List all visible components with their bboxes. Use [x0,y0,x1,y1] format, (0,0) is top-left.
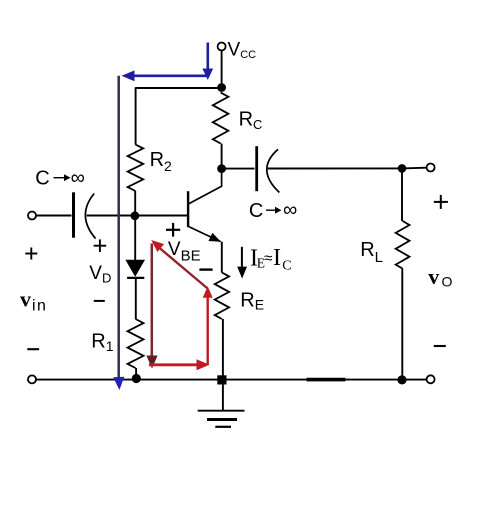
wire RL top lead [401,168,403,221]
capacitor C1 plate right (curved) [85,194,95,239]
svg-text:C: C [282,258,291,273]
wire output node to terminal [402,167,426,170]
svg-text:∞: ∞ [283,199,297,221]
svg-text:C: C [249,200,263,222]
ground bar 1 [198,410,245,412]
node output top [398,164,407,173]
wire C2 to output node [268,167,402,169]
diode D anode triangle [125,260,145,277]
blue arrow down from VCC [207,43,210,71]
label VD minus [94,300,105,302]
wire base node to diode [134,216,136,260]
wire emitter down [221,242,223,273]
wire R2 bottom lead [134,191,136,216]
terminal input bottom [28,375,36,383]
wire R2 top lead [135,87,137,144]
transistor Q1 collector lead [189,169,222,204]
ground bar 2 [207,418,237,421]
svg-text:O: O [442,274,453,290]
label output minus [434,345,446,347]
diode D cathode bar [127,277,144,279]
bottom rail wire [36,379,426,381]
wire RE bottom lead [222,319,224,380]
red loop right wire [206,296,208,365]
transistor Q1 emitter arrowhead [209,233,221,242]
terminal output bottom [427,375,435,383]
svg-text:v: v [20,287,31,312]
transistor Q1 base bar [187,191,189,227]
red loop arrowhead diagonal (top left) [151,240,164,252]
svg-text:≈: ≈ [264,250,273,267]
node bottom left (R1) [132,374,141,383]
transistor Q1 emitter lead [189,227,221,242]
blue wire vertical long [117,76,120,378]
capacitor C1 plate left [72,192,75,237]
resistor RL [396,221,410,269]
red loop arrowhead down (bottom left) [146,356,157,369]
resistor RE [215,273,229,320]
red loop diagonal wire [155,244,208,288]
capacitor C2 plate right (curved) [267,149,280,192]
svg-text:in: in [32,297,47,314]
label input minus [27,348,39,350]
red loop left wire [151,244,154,356]
svg-text:v: v [428,264,439,289]
node bottom right (RL) [397,375,406,384]
resistor RC [213,93,229,144]
wire diode to R1 [135,279,137,320]
node base [131,211,140,220]
current IE arrow [241,247,243,270]
red loop bottom wire [149,363,198,366]
ground bar 3 [215,426,231,428]
wire C1 to base node [87,215,188,217]
svg-text:I: I [273,245,281,271]
blue arrowhead bottom [113,377,124,390]
capacitor C2 plate left [255,146,258,191]
wire VCC to node [221,51,223,88]
terminal output top [427,164,435,172]
terminal input top [28,212,36,220]
node bottom center (RE/ground) [217,375,226,384]
blue arrow horizontal to left [133,75,208,78]
red loop arrowhead up (top right) [203,286,213,298]
label output plus [434,201,448,203]
label C1 plus [94,245,107,247]
wire RC bottom lead [221,144,223,170]
wire input to C1 [36,215,71,217]
label input plus [25,253,37,255]
node collector [217,164,226,173]
wire supply node to R2 top [136,87,222,89]
label VBE plus [166,229,180,231]
red loop arrowhead right [197,359,210,370]
label VBE minus [199,268,212,270]
wire R1 bottom lead [135,368,137,378]
resistor R1 [128,319,144,368]
node top supply [217,83,226,92]
wire collector node to C2 [222,168,255,170]
bottom rail thick segment [307,378,346,382]
resistor R2 [128,145,144,192]
wire to ground [222,380,224,411]
terminal VCC [218,43,226,51]
svg-text:∞: ∞ [71,167,85,189]
wire RL bottom lead [401,269,403,380]
svg-text:C: C [35,167,49,189]
